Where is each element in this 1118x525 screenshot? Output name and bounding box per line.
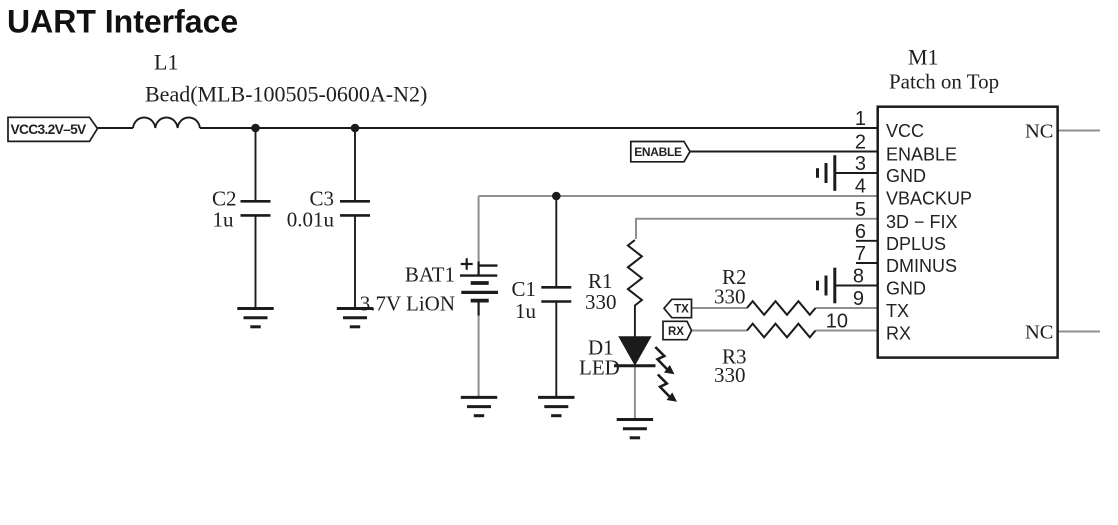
- svg-text:0.01u: 0.01u: [287, 208, 335, 232]
- svg-text:NC: NC: [1025, 322, 1053, 344]
- svg-text:330: 330: [714, 285, 746, 309]
- svg-text:1u: 1u: [515, 299, 537, 323]
- svg-text:NC: NC: [1025, 121, 1053, 143]
- svg-text:BAT1: BAT1: [405, 263, 455, 287]
- svg-text:L1: L1: [154, 50, 178, 75]
- svg-text:GND: GND: [886, 279, 926, 299]
- svg-text:VCC: VCC: [886, 121, 924, 141]
- svg-text:330: 330: [585, 290, 617, 314]
- svg-text:6: 6: [855, 221, 866, 243]
- svg-text:1: 1: [855, 108, 866, 130]
- svg-text:RX: RX: [886, 324, 911, 344]
- svg-text:330: 330: [714, 363, 746, 387]
- svg-text:5: 5: [855, 199, 866, 221]
- svg-text:Bead(MLB-100505-0600A-N2): Bead(MLB-100505-0600A-N2): [145, 82, 427, 107]
- svg-text:1u: 1u: [213, 208, 235, 232]
- svg-text:3.7V LiON: 3.7V LiON: [360, 292, 455, 316]
- svg-text:M1: M1: [908, 45, 939, 70]
- svg-text:GND: GND: [886, 166, 926, 186]
- svg-text:DPLUS: DPLUS: [886, 234, 946, 254]
- svg-text:4: 4: [855, 176, 866, 198]
- svg-text:RX: RX: [668, 326, 684, 338]
- svg-text:UART Interface: UART Interface: [7, 4, 238, 40]
- svg-text:VCC3.2V–5V: VCC3.2V–5V: [11, 122, 88, 137]
- svg-text:3: 3: [855, 153, 866, 175]
- svg-text:10: 10: [826, 311, 848, 333]
- svg-text:8: 8: [853, 266, 864, 288]
- svg-text:ENABLE: ENABLE: [634, 145, 682, 159]
- svg-text:DMINUS: DMINUS: [886, 256, 957, 276]
- svg-text:ENABLE: ENABLE: [886, 145, 957, 165]
- svg-text:Patch on Top: Patch on Top: [889, 70, 999, 94]
- svg-text:C1: C1: [511, 277, 536, 301]
- svg-text:2: 2: [855, 132, 866, 154]
- svg-text:TX: TX: [674, 304, 689, 316]
- svg-text:3D − FIX: 3D − FIX: [886, 212, 958, 232]
- svg-text:9: 9: [853, 288, 864, 310]
- svg-text:TX: TX: [886, 301, 909, 321]
- svg-text:LED: LED: [579, 356, 620, 380]
- svg-text:7: 7: [855, 243, 866, 265]
- svg-text:VBACKUP: VBACKUP: [886, 189, 972, 209]
